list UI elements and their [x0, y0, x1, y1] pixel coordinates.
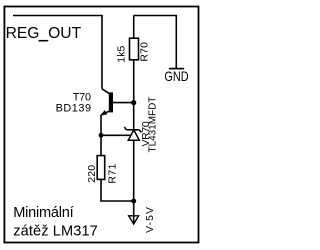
svg-text:V-5V: V-5V	[145, 207, 156, 233]
svg-text:Minimální: Minimální	[13, 205, 73, 221]
svg-text:R71: R71	[107, 163, 118, 183]
svg-text:GND: GND	[164, 69, 188, 84]
svg-text:R70: R70	[140, 42, 151, 62]
svg-text:220: 220	[87, 165, 98, 183]
svg-text:BD139: BD139	[56, 102, 91, 114]
svg-text:REG_OUT: REG_OUT	[6, 25, 82, 42]
svg-text:TL431MFDT: TL431MFDT	[148, 96, 159, 153]
svg-text:1k5: 1k5	[116, 45, 127, 62]
svg-text:zátěž LM317: zátěž LM317	[13, 223, 98, 239]
